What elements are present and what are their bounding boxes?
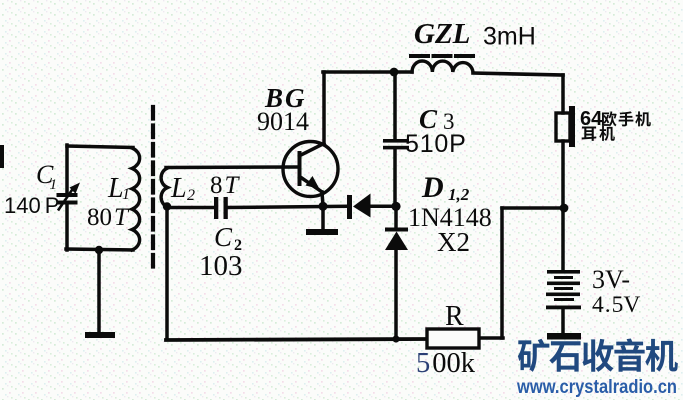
svg-text:GZL: GZL: [414, 18, 470, 50]
diode D2 triangle: [385, 232, 408, 251]
capacitor C2 plates: [214, 197, 218, 219]
svg-text:500k: 500k: [416, 348, 476, 379]
transistor emitter diagonal: [301, 178, 322, 193]
wire: L2 top to transistor base: [166, 165, 297, 169]
node B junction dot (L2 bottom): [163, 202, 171, 210]
svg-text:140P: 140P: [4, 193, 59, 218]
wire: C3 branch upper: [393, 72, 397, 139]
svg-text:1,2: 1,2: [448, 185, 470, 204]
transistor collector diagonal: [300, 144, 324, 156]
node A junction dot (tank bottom): [95, 246, 103, 254]
wire: top rail left segment: [323, 70, 412, 74]
wire: tank top (C1 top to L1 top): [67, 146, 133, 148]
wire: riser top to battery node: [502, 206, 564, 210]
battery B1 plates: [547, 270, 580, 274]
node G junction dot (battery top node): [560, 204, 569, 213]
ground (tank): [85, 332, 115, 338]
watermark 矿石收音机: [518, 338, 678, 371]
svg-text:4.5V: 4.5V: [592, 292, 640, 318]
earphone body rectangle: [556, 113, 570, 141]
node E junction dot (emitter node): [319, 202, 328, 211]
ground (battery negative bar): [547, 333, 581, 340]
wire: right riser up: [500, 208, 504, 338]
diode D1 cathode bar: [347, 195, 352, 219]
svg-text:510P: 510P: [405, 130, 467, 158]
wire: C1 left vertical upper: [65, 145, 69, 193]
svg-text:L: L: [170, 173, 187, 204]
svg-text:3V-: 3V-: [592, 265, 630, 294]
transistor base bar: [298, 153, 302, 184]
transistor emitter arrowhead: [306, 176, 320, 189]
svg-text:9014: 9014: [257, 107, 309, 136]
svg-text:1: 1: [122, 186, 130, 203]
wire: L2 bottom to C2: [167, 206, 213, 210]
svg-text:1: 1: [50, 177, 58, 193]
wire: D1 anode to node: [370, 205, 394, 209]
svg-text:www.crystalradio.cn: www.crystalradio.cn: [516, 376, 677, 398]
svg-text:3mH: 3mH: [483, 23, 536, 51]
wire: top rail right segment: [473, 73, 563, 75]
transistor Q1 circle: [283, 142, 338, 197]
svg-text:X2: X2: [437, 227, 470, 257]
svg-text:80T: 80T: [87, 204, 130, 231]
svg-text:2: 2: [187, 187, 195, 204]
node C junction dot (top rail / C3): [390, 68, 399, 77]
label 耳机: [582, 127, 597, 141]
svg-text:8T: 8T: [210, 172, 241, 199]
inductor GZL: [412, 61, 473, 72]
wire: emitter node down to ground: [321, 206, 325, 230]
wire: C1 left vertical lower: [65, 204, 69, 250]
ground (emitter): [306, 229, 338, 235]
wire: battery bottom stem: [561, 308, 565, 334]
core dashed line: [151, 107, 155, 267]
C1 arrow: [58, 189, 73, 211]
wire: ground stem below tank: [97, 250, 101, 333]
wire: C3 branch lower: [393, 150, 397, 206]
wire: bottom rail: [166, 339, 427, 340]
svg-text:D: D: [421, 171, 444, 204]
wire: earphone to battery node: [561, 141, 565, 271]
wire: collector up to top rail: [322, 72, 326, 143]
capacitor C3 plates: [383, 139, 409, 143]
earphone thick bar: [569, 106, 575, 147]
node D junction dot (D1/D2/C3): [391, 202, 400, 211]
wire: emitter down to node: [322, 192, 323, 206]
wire: tank bottom (C1 bottom to L1 bottom): [66, 249, 133, 250]
wire: C2 to emitter node: [226, 206, 347, 207]
wire: D2 anode down to bottom rail: [394, 249, 398, 340]
svg-text:C: C: [214, 222, 233, 252]
inductor L2: [161, 168, 167, 207]
diode D1 triangle: [353, 194, 371, 218]
resistor R body: [427, 329, 479, 348]
svg-text:103: 103: [199, 250, 243, 282]
svg-text:R: R: [445, 301, 464, 332]
diode D2 cathode bar: [385, 228, 408, 232]
wire: left edge scan mark: [0, 147, 4, 166]
wire: L2 bottom down to bottom rail: [165, 209, 169, 339]
node F junction dot (D2 bottom rail): [392, 335, 399, 342]
C1 variable capacitor plates: [57, 193, 78, 197]
inductor L1: [132, 148, 140, 250]
wire: earphone branch top: [561, 75, 565, 113]
wire: node down to D2: [394, 206, 398, 227]
GZL core dashes: [411, 54, 474, 58]
wire: resistor right to riser: [479, 336, 503, 340]
